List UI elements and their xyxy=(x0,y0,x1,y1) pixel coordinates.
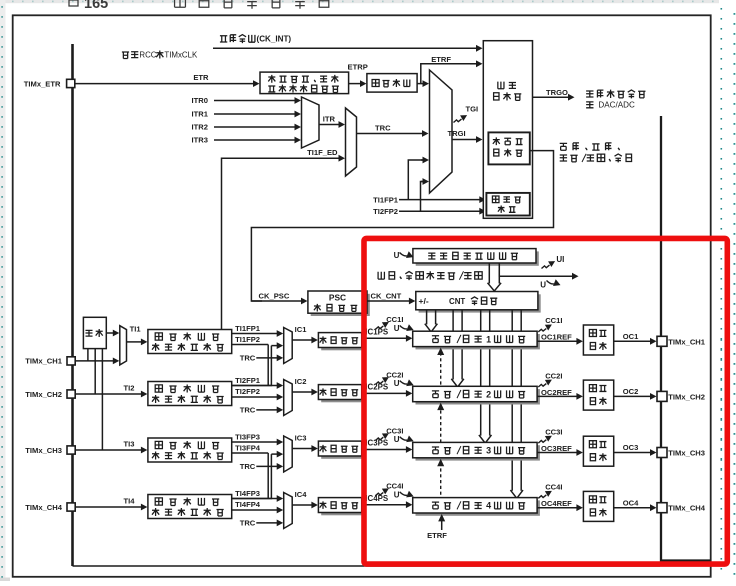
svg-text:TI3FP4: TI3FP4 xyxy=(235,444,261,453)
svg-text:+/-: +/- xyxy=(419,296,429,306)
pin TIMx_CH3 output xyxy=(657,448,667,458)
box PSC prescaler xyxy=(311,294,370,316)
svg-text:TIMx_CH1: TIMx_CH1 xyxy=(25,357,62,366)
svg-text:TI1: TI1 xyxy=(130,325,142,334)
svg-text:RCC: RCC xyxy=(139,51,156,60)
box capture compare register 1 xyxy=(416,334,540,349)
wire TRC row 2 xyxy=(256,409,277,411)
pin TIMx_CH2 output xyxy=(657,391,667,401)
svg-text:ITR3: ITR3 xyxy=(192,136,208,145)
box trigger controller xyxy=(483,41,532,219)
event CC1I right xyxy=(538,328,546,331)
wire TRGI to slave mode controller xyxy=(452,139,477,141)
svg-text:ETR: ETR xyxy=(193,73,209,82)
svg-text:2: 2 xyxy=(486,389,491,399)
svg-text:TI1FP1: TI1FP1 xyxy=(373,195,399,204)
wire TI3FP4 xyxy=(232,452,269,454)
pin TIMx_CH4 output xyxy=(657,503,667,513)
wire filter to trigger mux xyxy=(417,83,423,85)
wire update event to right xyxy=(498,270,501,276)
box capture compare register 3 xyxy=(416,445,540,460)
svg-text:CNT: CNT xyxy=(449,297,465,306)
svg-text:TIMx_CH1: TIMx_CH1 xyxy=(668,337,705,346)
svg-text:OC3REF: OC3REF xyxy=(541,444,572,453)
event CC4I left xyxy=(375,492,383,495)
wire ETRP to input filter xyxy=(349,83,361,85)
svg-text:ETRF: ETRF xyxy=(427,531,447,540)
svg-text:IC4: IC4 xyxy=(295,490,308,499)
svg-text:TRC: TRC xyxy=(240,354,256,363)
svg-text:ITR: ITR xyxy=(323,115,336,124)
wire TI2FP1 xyxy=(232,385,278,387)
svg-text:ETRP: ETRP xyxy=(348,63,368,72)
svg-text:CK_PSC: CK_PSC xyxy=(259,292,290,301)
svg-text:OC3: OC3 xyxy=(623,443,639,452)
wire TRC row 4 xyxy=(256,522,277,524)
box encoder interface xyxy=(486,193,529,216)
svg-text:OC4: OC4 xyxy=(623,498,639,507)
svg-text:TGI: TGI xyxy=(466,105,479,114)
svg-text:TIMx_CH3: TIMx_CH3 xyxy=(25,446,62,455)
wire TI2FP2 to encoder interface xyxy=(399,210,480,212)
left input rail xyxy=(71,44,74,566)
svg-text:ETRF: ETRF xyxy=(431,55,451,64)
crossing wire TI3FP4 down to IC4 xyxy=(267,453,269,499)
pin TIMx_CH1 output xyxy=(657,336,667,346)
box output control 3 xyxy=(583,436,613,466)
box prescaler CH3 xyxy=(321,444,364,459)
svg-text:IC2: IC2 xyxy=(295,377,307,386)
box input filter edge detector CH4 xyxy=(148,495,232,519)
svg-text:CC2I: CC2I xyxy=(545,371,562,380)
trigger mux trapezoid xyxy=(430,70,453,193)
svg-text:OC1REF: OC1REF xyxy=(541,333,572,342)
box slave mode controller xyxy=(488,132,529,164)
bottom-left gray stub xyxy=(0,578,10,582)
svg-text:TRC: TRC xyxy=(240,519,256,528)
right pin rail xyxy=(661,116,711,561)
svg-text:U: U xyxy=(394,324,400,333)
label from RCC TIMxCLK xyxy=(122,52,129,58)
arrow up into register 4 bottom xyxy=(438,514,445,522)
wire ETRF to capture compare 4 xyxy=(441,513,443,530)
svg-text:TIMx_CH3: TIMx_CH3 xyxy=(668,449,705,458)
svg-text:TRGO: TRGO xyxy=(546,88,568,97)
inner bottom line xyxy=(73,565,661,567)
arrow up into register 3 bottom xyxy=(437,459,444,467)
risers TI1FP1 TI2FP2 to trigger mux xyxy=(408,160,424,200)
mux IC4 xyxy=(284,493,293,529)
svg-text:TRC: TRC xyxy=(240,406,256,415)
box output control 1 xyxy=(583,325,613,355)
box capture compare register 2 xyxy=(416,389,540,404)
wire TI2FP2 xyxy=(232,396,278,398)
box capture compare register 4 xyxy=(416,500,540,515)
svg-text:IC3: IC3 xyxy=(295,433,307,442)
crossing wire TI1FP2 down to IC2 xyxy=(267,345,269,386)
left gray strip xyxy=(0,0,6,581)
svg-text:ITR1: ITR1 xyxy=(192,110,209,119)
wire TRC row 1 xyxy=(256,357,277,359)
wire TI1 to input filter CH1 xyxy=(127,341,142,343)
crossing wire TI4FP3 up to IC3 xyxy=(232,454,272,498)
svg-text:U: U xyxy=(394,435,400,444)
mux IC2 xyxy=(284,380,293,416)
box CNT counter xyxy=(419,294,541,312)
svg-text:TIMx_CH4: TIMx_CH4 xyxy=(668,504,705,513)
wire TRC to trigger mux xyxy=(357,133,424,135)
mux ITR select xyxy=(302,97,320,148)
box prescaler CH2 xyxy=(321,387,364,402)
box prescaler CH4 xyxy=(321,500,364,515)
hollow arrow auto-reload to CNT xyxy=(488,263,490,284)
wire IC3 to prescaler xyxy=(292,448,312,450)
box input filter edge detector CH3 xyxy=(148,438,232,462)
wire TI4FP4 xyxy=(232,509,278,511)
event UI of update xyxy=(542,265,550,268)
wire TI3FP3 xyxy=(232,441,278,443)
event CC1I left xyxy=(375,326,383,329)
svg-text:CC3I: CC3I xyxy=(545,427,562,436)
svg-text:U: U xyxy=(394,490,400,499)
svg-text:TIMxCLK: TIMxCLK xyxy=(164,51,198,60)
box XOR xyxy=(83,317,106,348)
svg-text:UI: UI xyxy=(556,255,564,264)
XOR tap verticals from CH1 CH2 CH3 xyxy=(87,349,89,361)
svg-text:CC1I: CC1I xyxy=(545,316,562,325)
dashed feedback line between compare registers xyxy=(440,347,442,497)
svg-text:TI3FP3: TI3FP3 xyxy=(235,432,260,441)
svg-text:TRC: TRC xyxy=(375,124,391,133)
label stop clear or up down xyxy=(378,272,384,279)
svg-text:CC2I: CC2I xyxy=(386,370,403,379)
svg-text:TI1FP1: TI1FP1 xyxy=(235,324,261,333)
mux IC3 xyxy=(284,436,293,472)
event CC2I right xyxy=(538,384,546,387)
box prescaler CH1 xyxy=(321,335,364,350)
mux TI1 select xyxy=(120,326,127,365)
wire CH1 to XOR mux xyxy=(75,360,114,362)
arrow up into register 1 bottom xyxy=(437,348,444,356)
label reset enable updown count xyxy=(560,143,567,150)
svg-text:IC1: IC1 xyxy=(295,325,308,334)
wire ITR to TRC mux xyxy=(319,124,340,126)
svg-text:165: 165 xyxy=(84,0,108,12)
red highlight rectangle xyxy=(364,238,727,564)
wire TI4FP3 xyxy=(232,498,278,500)
svg-text:TIMx_CH2: TIMx_CH2 xyxy=(25,390,62,399)
svg-text:4: 4 xyxy=(486,501,491,511)
svg-text:TI4: TI4 xyxy=(124,496,136,505)
mux TRC select xyxy=(346,108,357,176)
box output control 2 xyxy=(583,380,613,410)
svg-text:TI2FP2: TI2FP2 xyxy=(373,207,398,216)
svg-text:TI4FP4: TI4FP4 xyxy=(235,500,261,509)
arrow up into register 2 bottom xyxy=(437,403,444,411)
box output control 4 xyxy=(583,491,613,521)
top gray strip xyxy=(0,0,719,3)
svg-text:TI1F_ED: TI1F_ED xyxy=(307,148,338,157)
svg-text:DAC/ADC: DAC/ADC xyxy=(598,101,635,110)
box input filter xyxy=(367,74,417,93)
crossing wire TI2FP1 up to IC1 xyxy=(232,346,272,386)
svg-text:CC3I: CC3I xyxy=(386,426,403,435)
box input filter edge detector CH1 xyxy=(148,330,232,354)
svg-text:TI2: TI2 xyxy=(124,383,135,392)
wire XOR output to TI1 mux xyxy=(106,332,114,334)
svg-text:(CK_INT): (CK_INT) xyxy=(257,35,292,44)
wire slave mode outputs reset enable up down count xyxy=(251,151,553,301)
svg-text:PSC: PSC xyxy=(329,292,346,302)
svg-text:ITR0: ITR0 xyxy=(192,96,208,105)
svg-text:3: 3 xyxy=(486,446,491,456)
svg-text:TI2FP2: TI2FP2 xyxy=(235,387,260,396)
mux IC1 xyxy=(284,328,293,364)
svg-text:TRGI: TRGI xyxy=(448,129,466,138)
wire ETRF up to trigger controller xyxy=(421,64,476,84)
svg-text:TIMx_ETR: TIMx_ETR xyxy=(24,79,61,88)
svg-text:TIMx_CH2: TIMx_CH2 xyxy=(668,392,705,401)
svg-text:OC4REF: OC4REF xyxy=(541,499,572,508)
svg-text:U: U xyxy=(540,281,546,290)
svg-text:OC1: OC1 xyxy=(623,332,639,341)
svg-text:CC1I: CC1I xyxy=(386,315,403,324)
svg-text:TI3: TI3 xyxy=(124,439,135,448)
svg-text:TI4FP3: TI4FP3 xyxy=(235,489,260,498)
wire TI1F_ED from CH1 edge detector xyxy=(222,158,341,329)
hollow arrows CNT to capture compare registers xyxy=(426,310,428,325)
box polarity selection edge detector prescaler xyxy=(260,72,349,94)
svg-text:1: 1 xyxy=(486,334,491,344)
wire TI1FP1 xyxy=(232,333,278,335)
svg-text:ITR2: ITR2 xyxy=(192,123,208,132)
wire TI1FP2 xyxy=(232,344,269,346)
svg-text:U: U xyxy=(394,251,400,260)
svg-text:TIMx_CH4: TIMx_CH4 xyxy=(25,503,62,512)
svg-text:U: U xyxy=(394,379,400,388)
svg-text:CC4I: CC4I xyxy=(545,483,562,492)
event CC2I left xyxy=(375,381,383,384)
svg-text:TI1FP2: TI1FP2 xyxy=(235,335,260,344)
box auto-reload register xyxy=(416,251,539,265)
svg-text:TRC: TRC xyxy=(240,462,256,471)
box input filter edge detector CH2 xyxy=(148,382,232,406)
event CC3I left xyxy=(375,437,383,440)
wire TRC row 3 xyxy=(256,465,277,467)
wire IC4 to prescaler xyxy=(292,504,312,506)
wire CK_INT to trigger controller xyxy=(213,47,477,49)
svg-text:CK_CNT: CK_CNT xyxy=(371,292,402,301)
svg-text:OC2: OC2 xyxy=(623,387,639,396)
event CC3I right xyxy=(538,440,546,443)
event CC4I right xyxy=(538,495,546,498)
svg-text:CC4I: CC4I xyxy=(386,482,403,491)
wire IC1 to prescaler xyxy=(292,339,312,341)
label internal clock CK_INT xyxy=(220,36,227,42)
wire IC2 to prescaler xyxy=(292,391,312,393)
wire CK_CNT to CNT xyxy=(367,300,410,302)
event TGI xyxy=(454,119,462,122)
wire CK_PSC to PSC xyxy=(251,300,302,302)
wire TI1FP1 to encoder interface xyxy=(399,199,480,201)
svg-text:TI2FP1: TI2FP1 xyxy=(235,376,261,385)
svg-text:OC2REF: OC2REF xyxy=(541,388,572,397)
label to other timers to DAC ADC xyxy=(586,91,593,97)
